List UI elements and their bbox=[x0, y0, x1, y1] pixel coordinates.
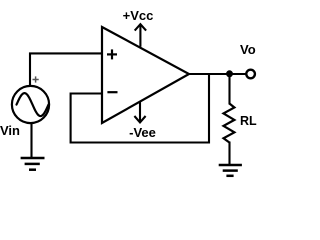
AC source Vin bbox=[12, 86, 49, 123]
svg-text:+Vcc: +Vcc bbox=[123, 8, 154, 23]
wire: output from op-amp apex to Vo terminal bbox=[188, 73, 246, 75]
+Vcc label bbox=[123, 8, 154, 23]
-Vee power arrow bbox=[134, 102, 145, 123]
resistor RL bbox=[224, 104, 235, 143]
node: output junction bbox=[226, 70, 233, 77]
svg-text:Vin: Vin bbox=[0, 123, 20, 138]
RL label bbox=[240, 114, 257, 128]
ground (load) bbox=[219, 165, 242, 176]
svg-text:-Vee: -Vee bbox=[129, 125, 156, 140]
+Vcc power arrow bbox=[135, 24, 146, 47]
wire: non-inverting input from source top bbox=[30, 53, 103, 85]
Vin label bbox=[0, 123, 20, 138]
op-amp non-inverting input marker (+) bbox=[107, 49, 117, 59]
op-amp U1 bbox=[102, 27, 189, 123]
svg-text:RL: RL bbox=[240, 114, 257, 128]
+ polarity mark of source bbox=[33, 76, 39, 82]
wire: RL bottom to ground bbox=[228, 142, 230, 166]
Vo label bbox=[240, 42, 256, 57]
terminal Vo (open circle) bbox=[246, 70, 255, 79]
op-amp inverting input marker (-) bbox=[107, 91, 117, 93]
svg-text:Vo: Vo bbox=[240, 42, 256, 57]
ground (source) bbox=[21, 158, 45, 170]
-Vee label bbox=[129, 125, 156, 140]
wire: junction down to RL bbox=[228, 74, 230, 105]
wire: feedback loop from inverting input around bottom to output bbox=[71, 74, 209, 143]
wire: source bottom to ground bbox=[30, 123, 32, 158]
